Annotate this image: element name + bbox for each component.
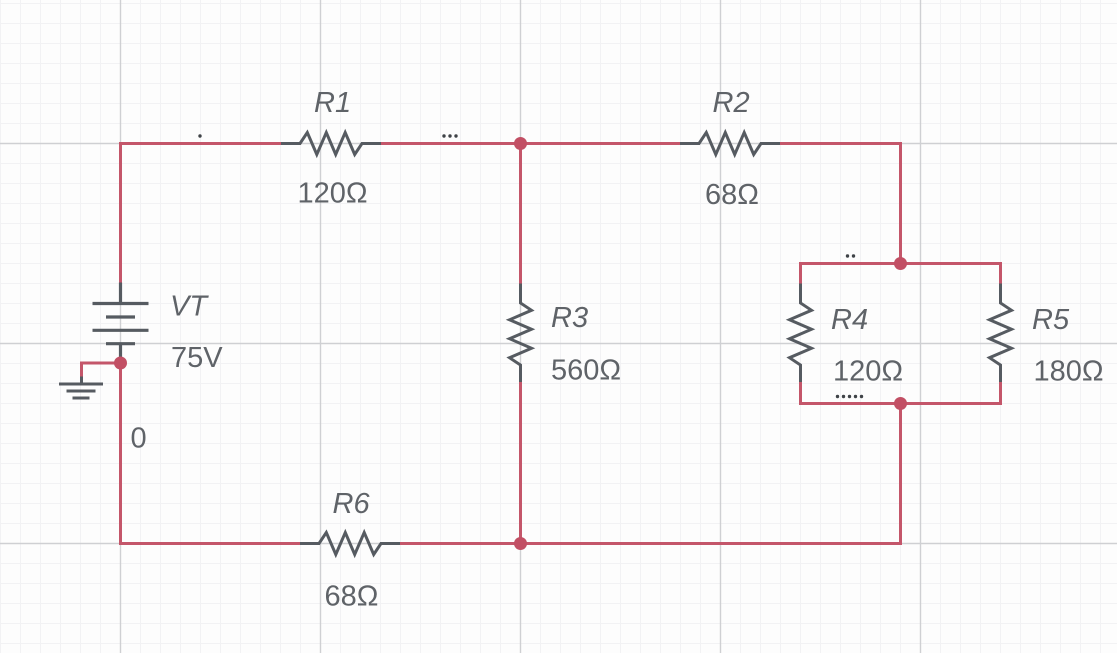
svg-text:R5: R5 bbox=[1032, 304, 1070, 336]
wire node N3 down to bottom-right corner to node N4 bbox=[521, 404, 901, 544]
junction battery-/ground bbox=[114, 357, 127, 370]
wire node N2 to R5 top bbox=[901, 264, 1001, 285]
svg-text:R4: R4 bbox=[831, 304, 868, 336]
current dots on parallel bottom wire bbox=[836, 395, 863, 398]
wire R6 left to bottom-left corner up to battery- bbox=[121, 357, 301, 544]
resistor R1 bbox=[281, 133, 381, 155]
svg-text:0: 0 bbox=[131, 423, 147, 455]
wire R5 bottom to node N3 bbox=[901, 381, 1001, 404]
current dots on wire N1-R2 bbox=[442, 134, 457, 137]
svg-text:R3: R3 bbox=[551, 302, 588, 334]
svg-text:120Ω: 120Ω bbox=[298, 178, 368, 210]
resistor R4 bbox=[790, 284, 812, 383]
battery VT bbox=[93, 283, 149, 358]
svg-text:75V: 75V bbox=[171, 342, 223, 374]
junction node N3 bbox=[894, 397, 907, 410]
current dot on top-left wire bbox=[198, 134, 201, 137]
junction node N4 bbox=[514, 537, 527, 550]
svg-text:68Ω: 68Ω bbox=[705, 179, 759, 211]
resistor R3 bbox=[510, 284, 532, 383]
wire battery- junction to ground bbox=[82, 363, 121, 378]
wire node N2 to R4 top bbox=[801, 264, 901, 285]
svg-text:VT: VT bbox=[170, 291, 209, 323]
resistor R6 bbox=[300, 533, 400, 555]
wire R3 top lead from node N1 bbox=[519, 144, 522, 285]
svg-text:68Ω: 68Ω bbox=[325, 581, 379, 613]
wire R4 bottom to node N3 bbox=[801, 381, 901, 404]
junction node N2 bbox=[894, 257, 907, 270]
svg-text:120Ω: 120Ω bbox=[833, 356, 903, 388]
wire R3 bottom lead to node N4 bbox=[519, 381, 522, 544]
svg-text:560Ω: 560Ω bbox=[551, 355, 621, 387]
wire R2 right to top-right corner down to node N2 bbox=[780, 144, 901, 264]
svg-text:R1: R1 bbox=[314, 87, 351, 119]
svg-text:R6: R6 bbox=[333, 488, 371, 520]
wire R1 right to node N1 bbox=[381, 142, 521, 145]
resistor R2 bbox=[680, 133, 780, 155]
ground bbox=[59, 377, 103, 399]
current dots on parallel top wire bbox=[846, 254, 855, 257]
svg-text:180Ω: 180Ω bbox=[1034, 356, 1104, 388]
wire node N4 to R6 right bbox=[400, 542, 521, 545]
svg-text:R2: R2 bbox=[713, 87, 750, 119]
wire node N1 to R2 left bbox=[521, 142, 681, 145]
resistor R5 bbox=[990, 284, 1012, 383]
wire battery+ to top-left corner to R1 left bbox=[121, 144, 282, 285]
junction node N1 bbox=[514, 137, 527, 150]
